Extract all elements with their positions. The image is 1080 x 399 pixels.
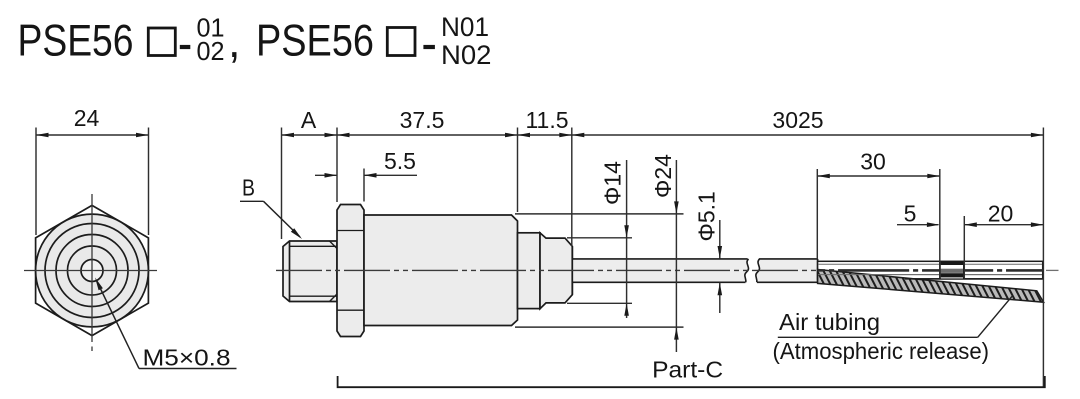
hex centerlines [24,194,157,351]
dimension 24 [36,128,149,236]
arrows top row [282,133,295,138]
hex nut (side) [337,205,364,337]
main body [364,215,518,326]
circle r47 [45,224,139,318]
box symbol 1 [148,28,175,56]
svg-text:11.5: 11.5 [525,107,568,133]
cable body [818,261,1043,279]
thread (part B) [283,241,337,302]
svg-text:5.5: 5.5 [384,148,416,174]
svg-text:Φ14: Φ14 [600,161,626,205]
svg-text:PSE56: PSE56 [256,17,374,66]
dim line A [282,134,338,136]
svg-text:30: 30 [860,149,886,175]
svg-text:Φ24: Φ24 [650,154,676,198]
cable end vertical edge [817,259,819,282]
svg-text:Air tubing: Air tubing [779,309,880,335]
svg-text:5: 5 [904,201,917,227]
svg-text:Φ5.1: Φ5.1 [694,191,720,241]
outer circle (filled) [36,214,149,327]
M5 hole circle [81,260,103,282]
dimension dia24 [515,160,684,352]
extension line thread-left [281,128,283,240]
title line: model codes [18,12,492,70]
Part-C bracket [338,376,1045,387]
dim line 3025 [572,134,1044,136]
centerline stub right of cable end [1046,269,1059,271]
dash 2 [423,45,435,49]
dimension 5 [897,216,964,279]
extension line cable-right (long, to bracket) [1042,128,1044,388]
circle r36 [56,235,128,307]
air tubing rope [807,250,1072,312]
tube segment 1 (to break) [572,259,748,282]
connector face line [571,246,573,294]
cable center dark stripe [818,269,1043,271]
connector ring 2 [540,233,572,309]
svg-text:,: , [228,16,241,67]
svg-text:37.5: 37.5 [400,107,445,133]
centerline of side view (phantom line) [276,269,817,271]
svg-text:B: B [242,175,255,201]
dimension dia14 [567,160,632,318]
circle r24.5 [68,246,117,295]
dim line 37.5 [337,134,518,136]
svg-text:3025: 3025 [772,107,823,133]
box symbol 2 [387,28,415,56]
dimension 30 [817,169,940,279]
tube segment 2 (after break) [756,259,818,282]
hex body outline [36,205,149,335]
svg-text:M5×0.8: M5×0.8 [143,345,231,371]
dash 1 [180,45,191,49]
extension line body-right [517,128,519,213]
svg-text:02: 02 [197,36,225,66]
svg-text:Part-C: Part-C [652,357,723,383]
cable inner line bottom [818,274,1042,276]
connector ring 1 [518,233,541,309]
air tubing leader [778,296,1012,337]
svg-text:N01: N01 [441,12,489,42]
svg-text:PSE56: PSE56 [18,17,134,66]
svg-text:(Atmospheric release): (Atmospheric release) [773,338,990,364]
cable inner line top [818,263,1042,265]
dimension 5.5 (hex width) [315,169,417,202]
redraw cable lower lines over rope [818,274,1042,276]
svg-text:24: 24 [74,105,100,131]
dim line 11.5 [518,134,572,136]
extension line connector-right [571,128,573,247]
svg-text:N02: N02 [441,40,492,70]
svg-text:A: A [301,107,317,133]
svg-text:20: 20 [988,201,1014,227]
5-section (stripped marking) [940,261,964,279]
dimension 20 [964,224,1043,226]
dimension dia5.1 [719,220,721,313]
extension line hex-left [336,128,338,203]
